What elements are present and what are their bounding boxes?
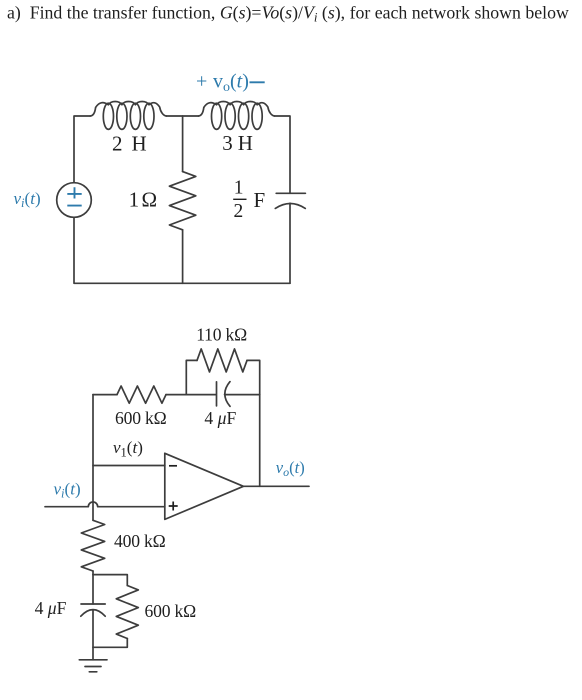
voltage source vi(t) (57, 183, 92, 218)
svg-text:1: 1 (129, 188, 140, 212)
wire 110k loop right vertical (247, 360, 260, 394)
svg-text:110 kΩ: 110 kΩ (196, 325, 247, 345)
svg-text:H: H (238, 131, 253, 155)
wire feedback mid (166, 394, 216, 396)
wire input with hop (45, 502, 165, 507)
svg-text:3: 3 (222, 131, 233, 155)
svg-text:H: H (132, 131, 147, 155)
svg-text:600 kΩ: 600 kΩ (145, 601, 197, 621)
svg-text:+: + (196, 71, 207, 93)
capacitor C1 1/2 F (275, 193, 305, 208)
wire feedback left vertical (x=93) (92, 395, 94, 521)
svg-text:vi(t): vi(t) (54, 479, 81, 500)
svg-text:vi(t): vi(t) (14, 189, 41, 210)
resistor R4 400k (81, 520, 104, 571)
inductor L2 3H coil (199, 101, 275, 129)
wire top-middle between coils (166, 115, 198, 117)
ground (79, 647, 107, 672)
svg-text:v1(t): v1(t) (113, 438, 143, 460)
wire bottom (74, 217, 290, 283)
op-amp plus sign (169, 502, 178, 511)
svg-text:Ω: Ω (142, 188, 158, 212)
wire feedback right vertical down to output (259, 395, 261, 487)
svg-text:1: 1 (234, 178, 244, 199)
wire output (243, 485, 309, 487)
wire middle branch top (182, 116, 184, 172)
svg-text:F: F (254, 188, 266, 212)
resistor R1 1 ohm (169, 172, 195, 230)
wire left-top: source to top-left corner (74, 116, 90, 183)
svg-text:vo(t): vo(t) (213, 71, 249, 96)
op-amp U1 triangle (165, 453, 244, 519)
svg-text:2: 2 (112, 131, 123, 155)
svg-text:4 μF: 4 μF (204, 408, 236, 428)
svg-text:4 μF: 4 μF (35, 598, 67, 618)
label 1/2 F (233, 178, 265, 222)
svg-text:a) Find the transfer function: a) Find the transfer function, G(s)=Vo(s… (7, 3, 569, 25)
wire parallel section bottom (93, 639, 127, 648)
resistor R5 600k bottom (116, 586, 138, 639)
wire top-right corner down to capacitor (275, 116, 290, 193)
inductor L1 2H coil (90, 101, 166, 129)
wire right side below capacitor (289, 203, 291, 283)
svg-text:600 kΩ: 600 kΩ (115, 408, 167, 428)
wire inverting input (93, 465, 165, 467)
wire 110k loop left vertical (186, 360, 197, 394)
svg-text:vo(t): vo(t) (276, 458, 305, 479)
svg-text:400 kΩ: 400 kΩ (114, 531, 166, 551)
resistor R2 600k feedback (117, 386, 166, 403)
wire below 400k (92, 571, 94, 575)
capacitor C2 4uF feedback (217, 382, 260, 407)
wire parallel section top (93, 575, 127, 586)
wire feedback top line left (93, 394, 117, 396)
wire middle branch bottom (182, 230, 184, 283)
op-amp minus sign (169, 465, 177, 467)
capacitor C3 4uF bottom (81, 575, 105, 648)
svg-text:2: 2 (234, 201, 244, 222)
resistor R3 110k (197, 349, 247, 372)
